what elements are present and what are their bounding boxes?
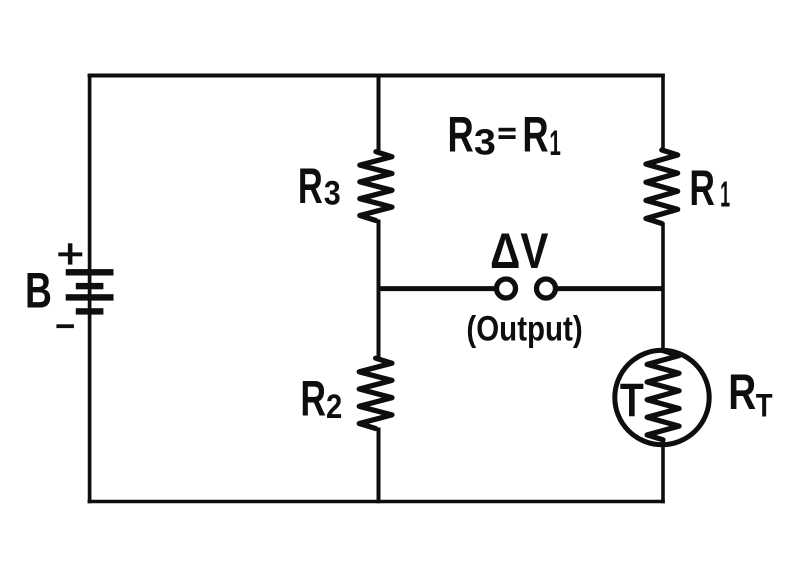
battery plus sign (58, 243, 82, 264)
label RT (728, 366, 756, 421)
label R3 (298, 159, 323, 215)
label T inside thermistor (620, 375, 644, 427)
svg-text:1: 1 (549, 124, 560, 163)
svg-text:T: T (756, 388, 773, 423)
svg-text:R: R (522, 107, 548, 163)
svg-text:3: 3 (324, 174, 341, 212)
wire middle upper (377, 74, 381, 153)
svg-text:R: R (300, 372, 326, 427)
wire middle lower (377, 428, 381, 504)
label R1 (689, 161, 715, 216)
svg-text:2: 2 (326, 387, 342, 426)
svg-text:R: R (298, 159, 323, 215)
wire right lower (661, 438, 665, 503)
wire output left (379, 286, 496, 291)
svg-text:R: R (728, 366, 756, 421)
battery minus sign (56, 324, 74, 328)
wire right middle (661, 223, 665, 354)
wire top (88, 74, 665, 78)
terminal circle right (537, 279, 556, 298)
terminal circle left (497, 279, 516, 298)
label delta-V (490, 223, 548, 279)
label B (25, 263, 52, 319)
resistor R3 (360, 152, 392, 221)
wire left (88, 74, 92, 504)
thermistor circle T (615, 350, 709, 444)
svg-text:T: T (620, 375, 644, 427)
svg-text:R: R (448, 107, 474, 163)
svg-text:ΔV: ΔV (490, 223, 548, 279)
thermistor RT zigzag (647, 351, 679, 440)
svg-text:3: 3 (474, 123, 496, 163)
battery B plates (66, 269, 114, 315)
label R2 (300, 372, 326, 427)
wire middle mid (377, 220, 381, 360)
svg-text:R: R (689, 161, 715, 216)
label (Output) (466, 309, 582, 348)
svg-text:1: 1 (720, 175, 730, 215)
resistor R1 (646, 150, 678, 224)
svg-text:B: B (25, 263, 52, 319)
wire bottom (88, 500, 665, 504)
wire right upper (661, 74, 665, 152)
svg-text:(Output): (Output) (466, 309, 582, 348)
resistor R2 (359, 358, 392, 428)
text R3 = R1 equation (448, 107, 474, 163)
wire output right (557, 286, 664, 291)
